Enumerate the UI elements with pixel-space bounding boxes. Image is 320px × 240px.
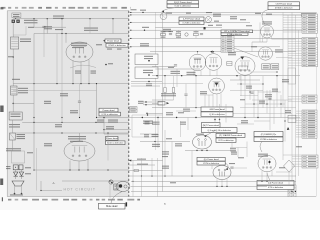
vertical x292 <box>291 12 293 191</box>
label C5x 101 <box>138 101 144 102</box>
junction dots y150.5 <box>196 150 197 151</box>
wire y27.5 left <box>155 27 203 29</box>
callout GM power dead ca1a <box>201 107 233 112</box>
output tube V703 <box>193 135 212 149</box>
wire y90.3 <box>230 89 263 91</box>
vertical x252 y42-52 <box>251 42 253 52</box>
cap C500a <box>13 165 18 170</box>
junction dot 113-18 <box>112 18 113 19</box>
svg-text:Power dead: Power dead <box>107 40 119 43</box>
wire y86 stub <box>131 85 160 87</box>
wire x79 y83-101 <box>79 84 81 101</box>
vertical bus line B <box>162 12 164 191</box>
svg-text:HOT CIRCUIT: HOT CIRCUIT <box>64 187 96 191</box>
mesh v x250 <box>249 80 251 100</box>
bus y22.4 <box>131 21 251 23</box>
svg-text:Mute dead: Mute dead <box>106 205 118 208</box>
label grey y95 cluster <box>60 93 68 94</box>
rectifier tube V501 <box>66 42 93 62</box>
mute transistor Q501 <box>109 180 113 184</box>
ac plug prong 2 <box>21 186 23 193</box>
boundary tick 5 <box>130 37 132 39</box>
thermistor hatched box <box>114 184 118 190</box>
junction dots between callouts <box>214 119 216 121</box>
junction dot 155-141 <box>154 141 155 142</box>
svg-text:IC501 is defective: IC501 is defective <box>108 44 126 47</box>
wire y134 stub <box>104 133 129 135</box>
mesh v x267 <box>266 90 268 113</box>
vertical bus line A <box>154 12 156 150</box>
vertical x192 y150-176 <box>191 151 193 177</box>
callout ic defective b1b <box>167 4 199 8</box>
output tube V704 <box>213 166 231 180</box>
callout ca2b <box>202 128 238 133</box>
label y144 <box>152 144 160 145</box>
coupling arc <box>70 65 96 68</box>
label x240 y158 <box>238 157 244 158</box>
tube V502 lead 2 <box>78 161 80 170</box>
svg-text:(M)T Power dead: (M)T Power dead <box>203 124 220 127</box>
label 4.7k relay <box>84 28 98 29</box>
wire y134 seg <box>140 133 158 135</box>
label C5x1 top <box>131 9 137 10</box>
vertical x283 <box>282 12 284 107</box>
bus y38.4 <box>131 37 303 39</box>
callout out power dead b2a <box>268 2 300 6</box>
callout ce-b <box>257 185 294 189</box>
label under R721 <box>161 93 176 94</box>
svg-text:IC70B is defective: IC70B is defective <box>260 138 278 141</box>
vertical x177 <box>176 69 178 87</box>
wire y141.5 <box>140 141 190 143</box>
mesh h y121 <box>254 120 270 122</box>
label V501 row3 <box>72 47 84 48</box>
junction dot 62-33 <box>61 33 62 34</box>
label right mid y80 <box>282 79 289 80</box>
V703 leads <box>196 149 198 151</box>
junction dot 106 <box>105 64 107 66</box>
cap x79 y101 <box>78 100 81 102</box>
label top mid4 <box>216 25 222 26</box>
triode V702 <box>209 78 225 94</box>
tube V501 lead 1 <box>72 61 74 84</box>
label grey y47 right <box>96 44 102 45</box>
label x280 y168 <box>279 167 285 168</box>
label C5x 83 <box>146 83 152 84</box>
label V502 row3 <box>70 141 83 142</box>
arrow near cc2 <box>287 127 290 130</box>
cathode mark V702 <box>215 83 219 86</box>
label right y148 <box>230 148 236 149</box>
vertical x232 y140-148 <box>231 142 233 148</box>
label y158 <box>137 159 146 160</box>
connector table CN105 <box>302 155 318 168</box>
junction dot 34-133 <box>33 132 34 133</box>
label pairs y121 <box>145 121 150 122</box>
cap C711 <box>169 33 172 35</box>
trimmer circle b3 <box>205 17 211 23</box>
label y166 x162 <box>162 166 169 167</box>
V704 leads <box>216 179 218 186</box>
mesh h y72 <box>250 71 277 73</box>
vertical x258 y90-117 <box>257 90 259 118</box>
wire x108 y133-160 <box>107 133 109 161</box>
vertical x212 y165-176? <box>211 165 213 169</box>
preamp tube V101 <box>261 25 274 38</box>
mesh h y92 <box>258 91 281 93</box>
label C7x 67 <box>168 67 174 68</box>
label x240 y121 <box>241 120 248 121</box>
junction dot 104-117 <box>103 117 104 118</box>
small box pair near V103 <box>227 62 232 66</box>
junction 79-117 <box>79 117 80 118</box>
leader ca2 to tube <box>206 130 216 136</box>
label y183 x172 <box>170 182 176 183</box>
ac plug prong 1 <box>14 186 16 193</box>
G5 leads <box>292 155 302 157</box>
mesh v x274 <box>273 100 275 124</box>
callout 47303 defective b2b <box>268 6 300 10</box>
top parts-list text row <box>1 7 5 9</box>
drop row to y38 <box>162 36 164 39</box>
connector table CN103 <box>302 95 317 103</box>
relay box RY702 <box>135 67 158 78</box>
output tube V705 <box>258 155 276 171</box>
label 1/2W 5p <box>163 29 171 30</box>
label C5x 25 col <box>12 79 20 80</box>
bus y30.2 <box>131 29 317 31</box>
wire y113.3 right <box>230 112 292 114</box>
vertical x247 y142-157 <box>246 142 248 158</box>
svg-text:47303 is defective: 47303 is defective <box>275 7 293 10</box>
svg-text:(L)t Power dead: (L)t Power dead <box>268 182 284 185</box>
V702 leads down <box>212 94 214 108</box>
leader arrow b1 <box>162 10 164 12</box>
mesh v x186 <box>185 84 187 94</box>
V701b top lead <box>213 52 215 54</box>
spare box right column <box>288 68 296 84</box>
wire y95.5 seg <box>240 95 258 97</box>
junction dot 96-83 <box>96 83 97 84</box>
label C72 150k <box>171 71 181 72</box>
sheet frame bottom border <box>7 196 316 198</box>
svg-text:Q,9 and Q,10 is defective: Q,9 and Q,10 is defective <box>208 129 232 132</box>
label C5x left <box>6 166 11 167</box>
leader cd to tube <box>225 163 228 168</box>
junction dot bus1 <box>142 12 143 13</box>
vertical x245 y80-117 <box>244 80 246 118</box>
bus y51.7 <box>150 51 296 53</box>
wire x13 y103-112 <box>12 104 14 113</box>
label x186 y13 <box>186 13 191 14</box>
label F501 <box>17 134 26 135</box>
label y166 232 <box>229 163 235 164</box>
wire x34 y133-170 <box>33 133 35 170</box>
label near x36 y152 <box>27 152 33 153</box>
label near V102 <box>251 46 257 47</box>
relay box RY701 <box>135 54 158 65</box>
hot-circuit shaded area <box>7 11 129 197</box>
wire y39 right <box>272 38 297 40</box>
cap y168 232 <box>230 166 233 168</box>
preamp tube V102 <box>259 47 273 60</box>
wire y100 right <box>252 99 292 101</box>
label under PT501 <box>9 124 20 125</box>
fuse box F501 <box>10 133 16 140</box>
wire below coil x13 <box>12 49 14 57</box>
label x166 y140 <box>166 138 172 139</box>
wire x12 y140-151 <box>11 140 13 151</box>
vertical x196 <box>195 76 197 108</box>
main bus y12.4 <box>131 11 317 13</box>
sheet frame left border <box>6 11 8 197</box>
wire x79 y102-117 <box>79 102 81 117</box>
V701a top lead <box>197 52 199 55</box>
relay actuator mark <box>15 18 16 19</box>
table CN101 leads <box>283 14 302 16</box>
callout cc2b <box>254 137 283 142</box>
junction dot 47-18 <box>47 18 48 19</box>
wire y80 <box>230 79 260 81</box>
triode V701b <box>205 54 222 71</box>
label C5 33.5 row <box>55 29 63 30</box>
label caps left col <box>25 167 31 168</box>
label AC 120V <box>10 194 23 195</box>
svg-text:IC10 is defective: IC10 is defective <box>175 5 192 8</box>
wire y27.5 right <box>206 27 222 29</box>
wire y129.6 <box>104 129 131 131</box>
label grey y126 cluster <box>55 124 62 125</box>
mesh v x285 <box>284 100 286 142</box>
svg-text:4-P3 Power dead: 4-P3 Power dead <box>183 18 201 21</box>
junction cross 41-190 <box>40 190 41 191</box>
callout Lt power dead cd-a <box>197 157 225 161</box>
connector diamond CN107 <box>284 160 295 172</box>
svg-text:a.: a. <box>164 203 166 206</box>
label C5x right <box>108 63 113 64</box>
smoothing box big <box>132 114 163 116</box>
svg-text:(L)t Power dead: (L)t Power dead <box>204 158 220 161</box>
vertical x133 bottom <box>132 161 134 197</box>
svg-text:Power dead: Power dead <box>103 109 115 112</box>
b+ rail y117.5 <box>97 117 163 119</box>
connector check table row2 <box>221 33 248 35</box>
callout ca1b <box>201 112 233 117</box>
junction dot y115 dot <box>147 114 148 115</box>
filter choke box <box>11 86 18 95</box>
pilot lamp circle <box>160 13 167 20</box>
grey dots y170-181 <box>107 169 108 170</box>
wire hot rail y18.7 <box>13 18 129 20</box>
mesh h y95 seg <box>200 94 213 96</box>
wire x13 to transformer <box>12 57 14 86</box>
resistor y170 <box>134 170 139 172</box>
svg-text:Q,10 is defective: Q,10 is defective <box>209 113 225 116</box>
junction dot 34-18 <box>33 18 34 19</box>
wire y124 seg <box>237 123 254 125</box>
rail y181 grey <box>62 180 129 182</box>
wire x44 y33-57 <box>43 34 45 58</box>
mesh labels 1 <box>246 86 252 87</box>
callout power dead cb1a <box>105 39 121 43</box>
label right of b3 <box>213 14 221 15</box>
wire x90 y18-33 <box>89 19 91 34</box>
callout ic defective cb1b <box>106 43 128 47</box>
label x248 y26 <box>246 25 252 26</box>
tube V501 lead 2 <box>80 62 82 84</box>
label x175 y143 <box>175 143 182 144</box>
label x216 y21b <box>214 21 219 22</box>
mesh labels 3 <box>272 89 278 90</box>
vertical x165 bottom <box>164 130 166 176</box>
wire h y27.2 <box>34 26 66 28</box>
label C5x bus <box>140 10 146 11</box>
label y163.5 <box>137 164 148 165</box>
label V502 <box>68 136 86 137</box>
label pair under cb3 <box>97 120 104 121</box>
mesh v x205 y95 <box>204 95 206 108</box>
mesh h y104 <box>245 103 285 105</box>
label RY501 RELAY 5V <box>24 20 38 21</box>
drop x163 y30-33 <box>162 30 164 33</box>
cap C510 <box>42 25 45 27</box>
wire x62 y33-122 <box>61 34 63 123</box>
left margin tick bottom <box>2 197 3 201</box>
wire h y33.5 <box>34 33 129 35</box>
hot/cold boundary dashed line <box>128 11 130 197</box>
wire y168 seg <box>230 167 247 169</box>
mesh h y111 seg <box>176 110 196 112</box>
svg-text:IC70B is defective: IC70B is defective <box>183 22 201 25</box>
wire y107.6 <box>152 107 222 109</box>
connector table CN106 <box>288 185 296 197</box>
output tube V502 <box>64 141 95 161</box>
vertical x158 y117-148 <box>157 118 159 149</box>
label mid col y57 <box>8 56 13 57</box>
wire y102 stub <box>143 101 163 103</box>
connector check table header <box>221 30 253 33</box>
bus y46.8 <box>131 46 281 48</box>
svg-text:5(L)1 Power dead: 5(L)1 Power dead <box>174 1 192 4</box>
vertical x172 bottom <box>171 142 173 177</box>
boundary tick 2 <box>130 14 132 16</box>
label x230 y152 <box>231 152 237 153</box>
stub arrow y160.5 <box>129 160 131 162</box>
vertical x283 y142-160 <box>282 142 284 161</box>
label grey y30 cluster2 <box>44 26 52 27</box>
label grey y112 cluster <box>70 110 78 111</box>
left margin revision mark 3 <box>0 179 3 186</box>
lamp circle row <box>185 33 188 36</box>
wire y104.8 stub <box>143 104 163 106</box>
svg-text:IC10 is defective: IC10 is defective <box>107 142 124 145</box>
mesh labels 5 <box>240 99 245 100</box>
left margin revision mark 1 <box>0 7 3 9</box>
cathode mark V103 <box>241 57 245 60</box>
line-transformer outline <box>12 151 25 163</box>
svg-text:Power dead: Power dead <box>106 137 118 140</box>
wire drop x62 <box>61 19 63 34</box>
callout DET power dead ca2a <box>202 123 221 128</box>
vertical x260 y22-42 <box>259 22 261 42</box>
junction dot x13 y57 <box>13 56 14 57</box>
boundary tick 4 <box>130 29 132 31</box>
connector check table grid <box>221 36 234 52</box>
wire ground rail y83.6 <box>13 83 129 85</box>
resistor R713 <box>194 33 199 35</box>
vertical x238 y147-157 <box>237 148 239 158</box>
V701 leads down <box>193 71 195 76</box>
resistor R722 <box>172 88 174 93</box>
wire y107.6 right <box>240 107 296 109</box>
junction dot 66-33 <box>65 33 66 34</box>
label above cb4 <box>106 126 114 127</box>
triode V701a <box>189 54 206 71</box>
wire relay drop x13 <box>12 23 14 37</box>
label 4x7 450 <box>142 27 149 28</box>
tube V502 lead 3 <box>87 160 89 170</box>
diode D501 <box>14 172 18 176</box>
callout cc1b <box>216 138 236 142</box>
mesh labels 2 <box>259 101 265 102</box>
label x240 y20 <box>240 19 246 20</box>
bottom parts-list text row <box>8 199 11 201</box>
power transformer box PT501 <box>9 112 22 120</box>
wire x34 long drop <box>33 34 35 134</box>
stub y191.5 <box>131 191 296 193</box>
junction dots y75.7 <box>156 75 157 76</box>
junction dot 62-18 <box>61 18 62 19</box>
wire x12 y120-133 <box>11 120 13 133</box>
sheet frame right border <box>316 12 318 196</box>
label x181 y113 <box>178 112 184 113</box>
wire y103.5 stub <box>152 103 158 105</box>
wire x79 y141 top <box>79 133 81 141</box>
wire x57 y33-83 <box>56 34 58 84</box>
wire y172 seg <box>276 171 292 173</box>
mesh v x241 <box>240 76 242 96</box>
label top mid1 <box>206 12 212 13</box>
rail y83.6 white seg <box>131 83 203 85</box>
rail y122.4 <box>22 121 129 123</box>
cap C500b <box>19 165 23 170</box>
vertical x152 bottom <box>151 158 153 176</box>
relay contact RY501-b <box>16 20 19 23</box>
vertical x270 y90-130 <box>269 90 271 130</box>
mute dead callout cb5 <box>99 203 126 209</box>
drop x196 y30-33 <box>195 30 197 33</box>
out label box <box>158 102 165 106</box>
rail y133 <box>13 132 129 134</box>
cap C713 <box>200 33 203 35</box>
vertical x180 y121-137 <box>180 121 182 137</box>
vertical x288 <box>287 15 289 110</box>
junction dots y51.7 <box>197 51 198 52</box>
junction dots y122 <box>33 122 34 123</box>
vertical x289 y172-185 <box>288 172 290 185</box>
junction dot 90-18 <box>89 18 90 19</box>
connector table CN104 <box>302 110 317 138</box>
wire x104 drop <box>103 118 105 135</box>
inner dot V705 <box>268 161 270 163</box>
stub y176 <box>129 175 296 177</box>
label C551 values <box>53 16 64 17</box>
label grey y103 cluster <box>44 101 51 102</box>
wire x96 drop <box>96 84 98 118</box>
callout arrow cb1 <box>103 40 105 42</box>
tube V502 lead 1 <box>69 161 71 171</box>
small box left of CN104 <box>288 115 296 122</box>
